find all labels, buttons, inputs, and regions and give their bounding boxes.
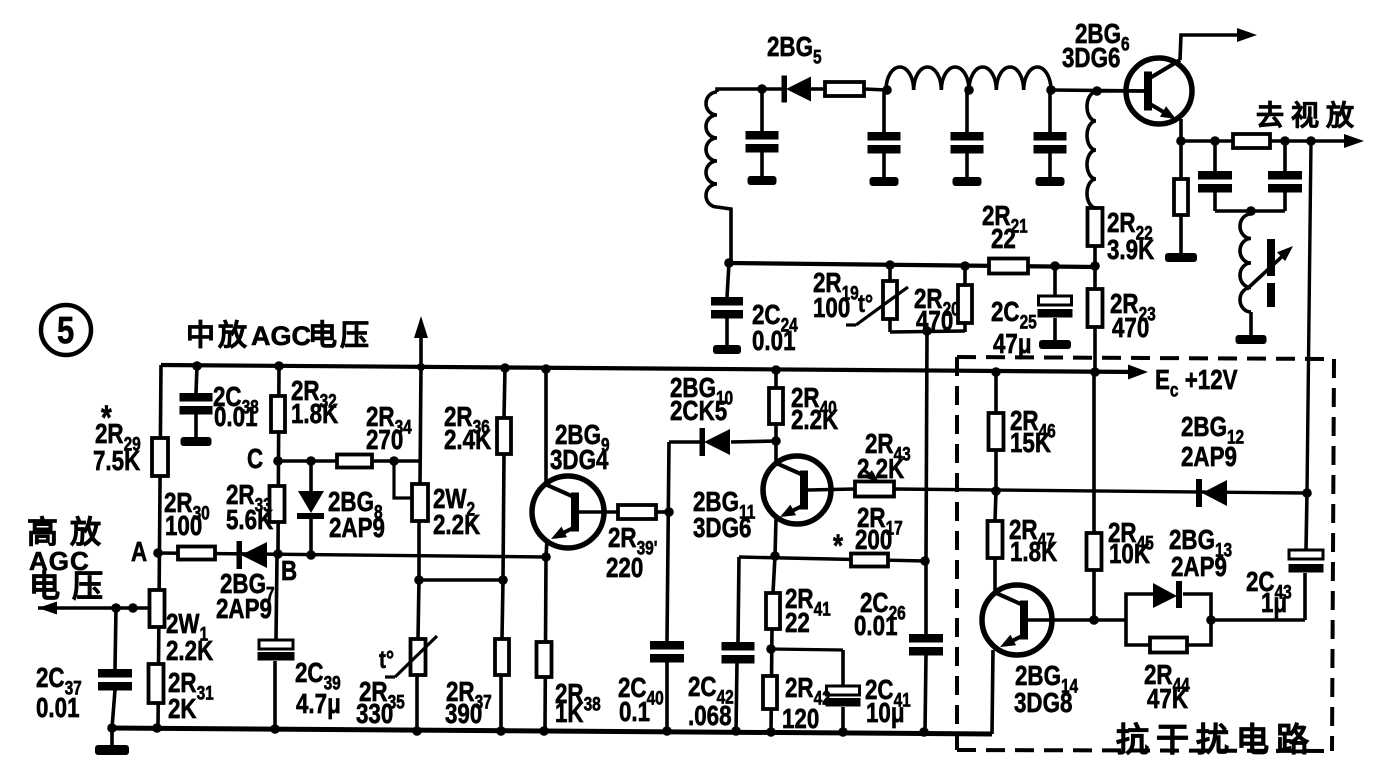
svg-text:7.5K: 7.5K (93, 446, 140, 477)
svg-text:47μ: 47μ (993, 329, 1032, 360)
svg-text:100: 100 (165, 511, 202, 542)
svg-text:2.2K: 2.2K (166, 636, 213, 667)
svg-text:1μ: 1μ (1261, 588, 1287, 619)
svg-text:*: * (833, 529, 844, 564)
svg-text:2AP9: 2AP9 (1181, 442, 1237, 473)
svg-text:电压: 电压 (308, 319, 372, 352)
svg-text:4.7μ: 4.7μ (296, 689, 341, 720)
svg-text:2AP9: 2AP9 (329, 513, 385, 544)
svg-text:0.01: 0.01 (854, 611, 898, 642)
svg-text:3.9K: 3.9K (1107, 235, 1154, 266)
svg-text:C: C (247, 444, 263, 475)
svg-text:3DG8: 3DG8 (1014, 688, 1072, 719)
svg-text:3DG4: 3DG4 (550, 445, 608, 476)
svg-text:3DG6: 3DG6 (693, 513, 751, 544)
svg-text:2K: 2K (168, 694, 197, 725)
svg-text:2CK5: 2CK5 (670, 396, 727, 427)
svg-text:t°: t° (858, 289, 873, 318)
svg-text:10K: 10K (1109, 539, 1150, 570)
svg-text:t°: t° (379, 645, 394, 674)
svg-text:Ec +12V: Ec +12V (1155, 365, 1238, 401)
svg-text:1K: 1K (555, 698, 584, 729)
svg-text:2AP9: 2AP9 (1171, 552, 1227, 583)
svg-text:5.6K: 5.6K (226, 505, 273, 536)
svg-text:470: 470 (1112, 313, 1149, 344)
svg-text:抗干扰电路: 抗干扰电路 (1116, 721, 1316, 758)
svg-text:0.01: 0.01 (36, 693, 80, 724)
svg-text:0.01: 0.01 (214, 402, 258, 433)
svg-text:中放: 中放 (186, 319, 250, 352)
svg-text:2.4K: 2.4K (444, 425, 491, 456)
svg-text:1.8K: 1.8K (1010, 537, 1057, 568)
svg-text:22: 22 (785, 608, 810, 639)
svg-text:AGC: AGC (251, 321, 311, 351)
svg-text:2.2K: 2.2K (857, 454, 904, 485)
svg-text:5: 5 (57, 310, 74, 352)
svg-text:15K: 15K (1010, 428, 1051, 459)
svg-text:2.2K: 2.2K (433, 510, 480, 541)
svg-text:2AP9: 2AP9 (216, 594, 272, 625)
svg-text:330: 330 (356, 699, 393, 730)
svg-text:B: B (281, 556, 297, 587)
svg-text:电压: 电压 (29, 569, 115, 604)
svg-text:去视放: 去视放 (1256, 99, 1361, 131)
svg-text:10μ: 10μ (866, 698, 905, 729)
svg-text:22: 22 (991, 224, 1016, 255)
svg-text:1.8K: 1.8K (291, 399, 338, 430)
svg-text:高放: 高放 (27, 515, 113, 550)
svg-text:100: 100 (813, 293, 850, 324)
svg-text:0.01: 0.01 (752, 326, 796, 357)
svg-text:A: A (131, 537, 147, 568)
svg-text:220: 220 (606, 553, 643, 584)
svg-text:390: 390 (445, 699, 482, 730)
svg-text:120: 120 (782, 704, 819, 735)
svg-text:2.2K: 2.2K (791, 405, 838, 436)
svg-text:.068: .068 (688, 701, 732, 732)
svg-text:0.1: 0.1 (619, 697, 650, 728)
svg-text:200: 200 (855, 525, 892, 556)
svg-text:470: 470 (916, 306, 953, 337)
svg-text:3DG6: 3DG6 (1062, 43, 1120, 74)
svg-text:270: 270 (366, 425, 403, 456)
svg-text:47K: 47K (1147, 684, 1188, 715)
